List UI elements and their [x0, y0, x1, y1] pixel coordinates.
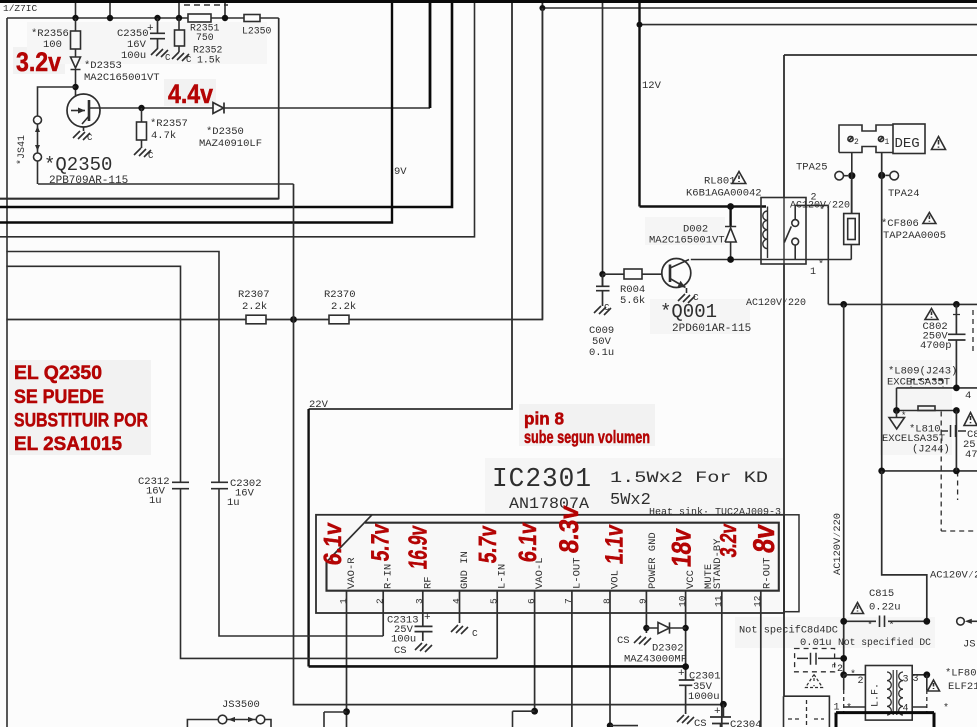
ground L810 open triangle	[889, 411, 905, 430]
svg-text:4700p: 4700p	[920, 340, 952, 352]
IC2301 side tab	[784, 515, 799, 612]
svg-text:3: 3	[903, 675, 909, 686]
svg-text:VOL: VOL	[610, 570, 622, 589]
svg-text:TPA24: TPA24	[888, 188, 920, 200]
svg-text:1.5Wx2 For KD: 1.5Wx2 For KD	[610, 469, 768, 487]
svg-text:12V: 12V	[642, 80, 662, 92]
wire bus y266 to C2312	[6, 266, 180, 482]
wire x543 down to bus319	[541, 8, 543, 320]
svg-text:9V: 9V	[394, 166, 407, 178]
wire x843 drop	[843, 304, 845, 674]
svg-text:12: 12	[752, 595, 763, 607]
wire bus y304	[828, 303, 977, 305]
node dot base	[72, 84, 78, 90]
wire vertical x512 22V rail	[309, 3, 512, 409]
svg-text:*Q001: *Q001	[660, 301, 717, 323]
svg-text:C: C	[148, 151, 154, 161]
ground under R2357	[134, 148, 151, 157]
ground Q001	[678, 294, 695, 303]
wire 4.4v output y108	[90, 107, 430, 109]
svg-text:TAP2AA0005: TAP2AA0005	[883, 230, 946, 242]
svg-text:0.01u: 0.01u	[800, 637, 832, 649]
inductor L810	[897, 410, 957, 412]
svg-text:*CF806: *CF806	[881, 218, 919, 230]
relay contacts	[792, 220, 799, 227]
svg-text:POWER GND: POWER GND	[647, 532, 659, 589]
svg-text:L2350: L2350	[242, 26, 272, 37]
svg-text:750: 750	[196, 32, 214, 43]
wire bus y199	[0, 198, 279, 200]
warning triangle right edge	[964, 413, 977, 426]
wire stub bar to bus x225	[224, 3, 226, 18]
wire bus y207 thick	[0, 3, 452, 207]
svg-text:*: *	[889, 620, 895, 632]
svg-text:1: 1	[810, 267, 816, 278]
ground under C2350	[151, 48, 168, 57]
svg-text:3.2v: 3.2v	[16, 47, 61, 77]
G3 red note	[14, 363, 650, 455]
resistor R2352	[178, 18, 180, 52]
warning triangle LF801	[928, 680, 940, 691]
wire y24.6	[640, 24, 977, 26]
svg-text:*: *	[867, 620, 873, 632]
warning triangle C802	[925, 309, 938, 320]
pin 4 stub	[459, 591, 461, 623]
svg-text:*: *	[818, 259, 824, 271]
svg-text:CS: CS	[617, 635, 630, 647]
svg-text:9: 9	[638, 598, 649, 604]
svg-text:GND IN: GND IN	[459, 551, 471, 589]
resistor R2307	[246, 315, 266, 324]
svg-text:RF: RF	[422, 576, 434, 589]
resistor R2351	[188, 14, 211, 22]
svg-text:1/Z7IC: 1/Z7IC	[3, 3, 38, 14]
diode D2353	[71, 57, 81, 96]
warning triangle DEG	[932, 137, 946, 150]
svg-text:*: *	[901, 411, 906, 421]
inductor L2350	[244, 15, 260, 22]
wire box1 bottom	[38, 183, 294, 185]
svg-text:3.2v: 3.2v	[715, 522, 741, 558]
svg-text:pin 8: pin 8	[524, 409, 564, 429]
relay RL801 box	[761, 198, 806, 265]
svg-text:K6B1AGA00042: K6B1AGA00042	[686, 188, 762, 200]
warning triangle C814 dashed	[806, 675, 823, 688]
svg-text:5.6k: 5.6k	[620, 295, 645, 307]
pin 3 stub	[422, 591, 424, 627]
pin names rotated	[346, 532, 773, 589]
transistor Q2350	[67, 94, 100, 127]
node dot q001	[599, 271, 605, 277]
svg-text:*Q2350: *Q2350	[44, 154, 112, 176]
svg-text:VCC: VCC	[685, 570, 697, 589]
svg-text:*: *	[850, 669, 856, 681]
svg-text:2.2k: 2.2k	[331, 301, 356, 313]
box power plug bottom	[784, 696, 830, 727]
svg-text:2: 2	[854, 138, 859, 147]
svg-text:AC120V⁄220: AC120V⁄220	[832, 513, 844, 575]
resistor R2357	[141, 108, 143, 148]
svg-text:*D2353: *D2353	[84, 60, 122, 72]
svg-text:C: C	[186, 55, 192, 65]
capacitor C814 dashed box	[795, 649, 835, 672]
svg-text:ELF21N: ELF21N	[948, 681, 977, 693]
node dot x293	[290, 316, 297, 323]
wire bus y252 to C2302	[6, 252, 219, 483]
svg-text:1u: 1u	[149, 495, 162, 507]
svg-text:1u: 1u	[227, 497, 240, 509]
svg-text:*R2357: *R2357	[150, 118, 188, 130]
svg-text:100u: 100u	[391, 634, 416, 646]
svg-text:DEG: DEG	[895, 136, 920, 152]
wire x293 long vertical	[294, 184, 724, 705]
wire 22V drop x308 thick	[307, 409, 309, 667]
wire stub bar to bus x179	[178, 3, 180, 18]
op-amp U IC2301 outer box	[316, 515, 784, 613]
svg-text:*D2350: *D2350	[206, 126, 244, 138]
pin 10 stub	[685, 591, 687, 680]
diode D002	[729, 207, 731, 227]
svg-text:EL Q2350: EL Q2350	[14, 363, 102, 384]
svg-text:18v: 18v	[666, 527, 697, 569]
pin 8 stub	[609, 591, 611, 726]
svg-text:47: 47	[965, 449, 977, 461]
svg-text:7: 7	[563, 598, 574, 604]
svg-text:2.2k: 2.2k	[242, 301, 267, 313]
wire C2302 to pin2	[219, 489, 383, 636]
ground C2301	[677, 715, 694, 724]
svg-text:L-OUT: L-OUT	[571, 557, 583, 589]
svg-text:C: C	[693, 292, 699, 303]
svg-text:0.22u: 0.22u	[869, 602, 901, 614]
wire VAO-R out	[343, 708, 350, 715]
svg-text:MA2C165001VT: MA2C165001VT	[84, 72, 160, 84]
wire x881 to x926 jog	[882, 471, 927, 621]
svg-text:MA2C165001VT: MA2C165001VT	[649, 235, 725, 247]
svg-text:8: 8	[601, 598, 612, 604]
capacitor C2302	[211, 482, 228, 488]
capacitor C816 dashed box	[941, 412, 977, 532]
ground pin9 CS	[634, 636, 651, 645]
wire L809-L810 link	[896, 388, 898, 411]
connector JS	[957, 618, 965, 626]
G6 right top	[539, 3, 977, 696]
capacitor C2304	[720, 701, 727, 708]
connector DEG	[839, 125, 893, 153]
wire VAO-L out	[531, 708, 538, 715]
capacitor C802	[948, 304, 966, 388]
G7 right mid	[828, 301, 977, 675]
capacitor C009	[596, 274, 610, 306]
svg-text:4: 4	[451, 598, 462, 604]
svg-text:22V: 22V	[309, 399, 329, 411]
svg-text:6.1v: 6.1v	[319, 521, 347, 566]
pin 2 stub	[382, 591, 384, 636]
ground under R2352	[172, 52, 189, 61]
wire TPA24 drop	[881, 153, 883, 471]
ground pin4	[451, 625, 468, 634]
ground C2313	[415, 643, 432, 652]
svg-text:6: 6	[526, 598, 537, 604]
pin 1 stub	[346, 591, 348, 727]
svg-text:6.1v: 6.1v	[514, 521, 542, 563]
svg-text:4.7k: 4.7k	[151, 130, 176, 142]
wire thick 12V to relay	[640, 205, 767, 208]
svg-text:R-IN: R-IN	[383, 564, 395, 589]
svg-text:R2307: R2307	[238, 289, 270, 301]
capacitor C2301	[679, 680, 695, 714]
top border bar	[0, 0, 977, 3]
svg-text:C: C	[87, 133, 93, 143]
svg-text:3: 3	[913, 674, 919, 685]
wire 12V rail x639	[638, 3, 640, 207]
wire Q001 to relay coil	[691, 259, 852, 261]
svg-text:C: C	[472, 628, 478, 639]
svg-text:4: 4	[965, 390, 971, 402]
svg-text:MAZ43000MF: MAZ43000MF	[624, 654, 687, 666]
svg-text:0.1u: 0.1u	[589, 347, 614, 359]
G8 right bottom	[739, 471, 977, 727]
transistor Q001	[662, 259, 691, 288]
wire stub bar to bus x110	[109, 3, 111, 18]
G4 IC2301	[316, 465, 799, 727]
wire bus y237	[0, 3, 475, 237]
svg-text:1: 1	[885, 138, 890, 147]
capacitor C2350	[150, 18, 165, 48]
svg-text:SE PUEDE: SE PUEDE	[14, 387, 104, 408]
svg-text:100u: 100u	[121, 50, 146, 62]
red pin voltages rotated	[319, 504, 781, 571]
pin 7 stub	[571, 591, 573, 727]
warning triangle RL801	[732, 172, 746, 184]
svg-text:JS: JS	[963, 639, 976, 651]
warning triangle CF806	[923, 213, 936, 224]
svg-text:1000u: 1000u	[688, 691, 720, 703]
svg-text:8v: 8v	[748, 523, 781, 555]
wire bus y319 volume	[6, 3, 542, 320]
diode D2302	[643, 625, 649, 631]
ground under Q2350	[73, 131, 90, 140]
pin 6 stub	[534, 591, 536, 712]
G2 buses	[0, 3, 723, 705]
svg-text:CS: CS	[394, 645, 407, 657]
transformer pin1 pin4 wires	[844, 706, 927, 708]
svg-text:16.9v: 16.9v	[403, 524, 433, 571]
capacitor C2313	[415, 626, 433, 641]
svg-text:L-IN: L-IN	[497, 564, 509, 589]
svg-text:*LF801: *LF801	[945, 668, 977, 680]
svg-text:RL801: RL801	[704, 176, 736, 188]
transformer pin3 wire	[912, 674, 927, 676]
svg-text:R2370: R2370	[324, 289, 356, 301]
wire bus y470	[882, 470, 977, 472]
svg-text:Heat sink· TUC2AJ009-3: Heat sink· TUC2AJ009-3	[649, 507, 781, 519]
svg-text:R-OUT: R-OUT	[761, 557, 773, 589]
pin 9 stub	[645, 591, 647, 633]
IC2301 inner pin box	[327, 523, 779, 591]
wire x602 rail	[602, 3, 604, 286]
capacitor C2312	[172, 482, 189, 488]
svg-text:*: *	[943, 703, 949, 715]
svg-text:sube segun volumen: sube segun volumen	[524, 427, 650, 447]
svg-text:4.4v: 4.4v	[168, 79, 213, 109]
svg-text:1.1v: 1.1v	[601, 523, 629, 565]
jumper JS41	[38, 87, 76, 116]
svg-text:MUTE: MUTE	[703, 564, 715, 589]
wire bus y222 thick	[0, 3, 392, 223]
svg-text:5.7v: 5.7v	[474, 524, 502, 564]
diode D2350	[213, 103, 224, 114]
svg-text:TPA25: TPA25	[796, 162, 828, 174]
pin 11 stub	[721, 591, 723, 727]
svg-text:SUBSTITUIR POR: SUBSTITUIR POR	[14, 411, 148, 432]
svg-text:AC120V⁄220: AC120V⁄220	[746, 297, 806, 309]
power box corner	[784, 55, 977, 696]
thick 22V bus to VCC	[309, 665, 686, 668]
node dots on bus	[72, 15, 228, 21]
svg-text:5Wx2: 5Wx2	[610, 491, 651, 510]
svg-text:10: 10	[677, 595, 688, 607]
svg-text:2: 2	[858, 676, 864, 687]
svg-text:1: 1	[338, 598, 349, 604]
wire top bus y18	[7, 17, 279, 19]
svg-text:Not specifC8d4DC: Not specifC8d4DC	[739, 625, 838, 637]
svg-text:+: +	[678, 668, 685, 680]
svg-text:3: 3	[414, 598, 425, 604]
wire stub bar to bus x75	[75, 3, 77, 18]
fuse CF806 riser	[850, 245, 852, 260]
test point TPA24	[878, 172, 885, 179]
svg-text:C: C	[165, 53, 171, 63]
svg-text:AC120V⁄2: AC120V⁄2	[930, 570, 977, 582]
svg-text:1.5k: 1.5k	[197, 55, 221, 66]
resistor R2356	[75, 18, 77, 57]
svg-text:2PB709AR-115: 2PB709AR-115	[49, 175, 128, 187]
wire vertical x430 thick	[429, 3, 432, 108]
resistor R2370	[329, 315, 349, 324]
svg-text:C2304: C2304	[730, 719, 762, 727]
svg-text:AC120V⁄220: AC120V⁄220	[790, 200, 850, 212]
svg-text:IC2301: IC2301	[492, 465, 592, 495]
svg-text:JS3500: JS3500	[222, 699, 260, 711]
relay coil	[767, 207, 769, 259]
svg-text:11: 11	[713, 595, 724, 607]
svg-text:(J244): (J244)	[912, 444, 950, 456]
svg-text:2PD601AR-115: 2PD601AR-115	[672, 323, 751, 335]
wire VOL bottom	[607, 722, 613, 727]
svg-text:EL 2SA1015: EL 2SA1015	[14, 434, 122, 455]
svg-text:+: +	[714, 706, 721, 718]
svg-text:+: +	[424, 612, 431, 624]
resistor R004	[603, 273, 662, 275]
pin 12 stub	[760, 591, 762, 727]
wire C2312 to pin5	[181, 489, 498, 658]
svg-text:Not specified DC: Not specified DC	[838, 637, 931, 649]
svg-text:C815: C815	[869, 588, 894, 600]
pin 5 stub	[496, 591, 498, 659]
svg-text:8.3v: 8.3v	[553, 504, 584, 555]
G5 bottom	[187, 612, 761, 727]
pin numbers	[338, 595, 763, 607]
wire left border	[6, 18, 8, 727]
svg-text:MAZ40910LF: MAZ40910LF	[199, 138, 262, 150]
wire box1 right edge	[0, 18, 279, 199]
svg-text:*JS41: *JS41	[16, 135, 28, 165]
svg-text:5.7v: 5.7v	[367, 522, 395, 562]
svg-text:EXCELSA35T: EXCELSA35T	[887, 377, 950, 389]
svg-text:2: 2	[375, 598, 386, 604]
fuse CF806	[844, 214, 860, 245]
box speaker thick bottom	[836, 713, 934, 727]
svg-text:L.F.: L.F.	[871, 683, 882, 707]
svg-text:VAO-R: VAO-R	[346, 557, 358, 589]
transformer LF801	[840, 671, 847, 678]
wire y8	[542, 3, 977, 8]
svg-text:CS: CS	[694, 718, 707, 727]
svg-text:5: 5	[489, 598, 500, 604]
dashed box remnant top	[184, 4, 228, 6]
IC2301 chamfer diagonal	[327, 515, 373, 562]
